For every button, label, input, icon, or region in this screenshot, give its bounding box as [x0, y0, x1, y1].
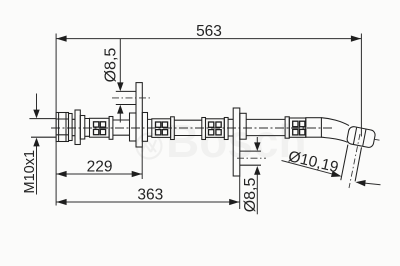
crimp — [171, 117, 175, 140]
end tube centerline — [349, 134, 360, 188]
crimp — [224, 118, 228, 140]
squares segment 2 — [156, 122, 161, 127]
arrow 229 left — [56, 171, 66, 177]
leader dia 10,19 right — [364, 183, 381, 185]
stub tube 2 centerline — [237, 157, 266, 159]
collar left of bracket 1 — [130, 113, 137, 141]
end tube — [341, 145, 362, 182]
dimensions — [37, 34, 381, 215]
crimp — [109, 117, 113, 140]
hose segment — [246, 119, 285, 135]
collar right of bracket 2 — [240, 113, 246, 139]
hose neck — [72, 119, 75, 135]
svg-text:Ø8,5: Ø8,5 — [242, 178, 259, 213]
bracket flange 2 — [233, 108, 240, 176]
stub tube 1 centerline — [112, 97, 151, 99]
leader dia 8,5 second lower — [256, 174, 258, 215]
hose segment — [85, 119, 90, 137]
hose pattern segment 1 — [90, 118, 110, 137]
arrow M10x1 bottom — [33, 138, 39, 147]
crimp — [202, 118, 206, 140]
arrow dia8,5-1 down — [117, 82, 123, 91]
dimension line 229 — [56, 173, 142, 175]
stub tube 1 — [116, 91, 136, 104]
extension line right (563) — [360, 34, 362, 137]
centerline tick right of block — [375, 138, 380, 141]
thread M10 stub — [29, 119, 56, 138]
svg-text:Ø8,5: Ø8,5 — [103, 48, 120, 83]
hose bend — [321, 118, 349, 143]
hose segment — [148, 119, 152, 136]
arrow 563 left — [56, 36, 66, 42]
arrow 363 left — [56, 199, 66, 205]
extension line 229 (bracket 1 face) — [141, 147, 143, 179]
arrowheads — [33, 36, 365, 206]
end sleeve — [306, 118, 322, 138]
arrow dia10,19 right — [356, 180, 366, 186]
bracket flange 1 — [136, 83, 142, 147]
svg-text:M10x1: M10x1 — [22, 150, 38, 194]
arrow 363 right — [229, 199, 239, 205]
extension line left (563/229/363 datum) — [55, 34, 57, 206]
hex nut — [56, 113, 68, 142]
arrow dia10,19 left — [331, 171, 342, 177]
svg-text:563: 563 — [196, 23, 222, 40]
pattern squares — [94, 121, 305, 135]
hose pattern segment 2 — [152, 119, 171, 138]
arrow dia8,5-2 down — [254, 142, 260, 151]
leader M10x1 upper — [36, 94, 38, 111]
ferrule — [75, 110, 80, 145]
leader dia 10,19 — [282, 161, 334, 175]
arrow 229 right — [132, 171, 142, 177]
extension line 363 (bracket 2 face) — [239, 176, 241, 209]
squares segment 1 — [94, 122, 99, 127]
leader dia 8,5 second upper — [256, 137, 258, 144]
arrow dia8,5-2 up — [254, 166, 260, 175]
stub tube 2 — [240, 151, 261, 165]
hose pattern segment 4 — [289, 118, 306, 137]
hose pattern segment 3 — [206, 119, 225, 138]
svg-text:229: 229 — [87, 159, 113, 176]
hose segment — [174, 120, 202, 135]
squares segment 3 — [209, 122, 214, 127]
squares segment 4 — [293, 121, 298, 127]
watermark bosch logo — [137, 134, 162, 159]
hose segment — [113, 120, 130, 135]
dimension line 363 — [56, 201, 240, 203]
arrow M10x1 top — [33, 110, 39, 119]
washer — [69, 114, 73, 141]
leader M10x1 lower — [36, 146, 38, 195]
leader dia 8,5 first lower — [119, 113, 121, 123]
dimension line 563 — [56, 38, 361, 40]
node hose centerline — [51, 127, 332, 129]
arrow 563 right — [351, 36, 361, 42]
crimp — [285, 117, 289, 138]
hose segment — [228, 119, 233, 136]
leader dia 8,5 first upper — [119, 39, 121, 84]
collar right of bracket 1 — [142, 113, 147, 142]
arrow dia8,5-1 up — [117, 105, 123, 114]
svg-text:363: 363 — [137, 187, 163, 204]
end fitting block — [346, 126, 376, 148]
collar block — [80, 116, 85, 140]
